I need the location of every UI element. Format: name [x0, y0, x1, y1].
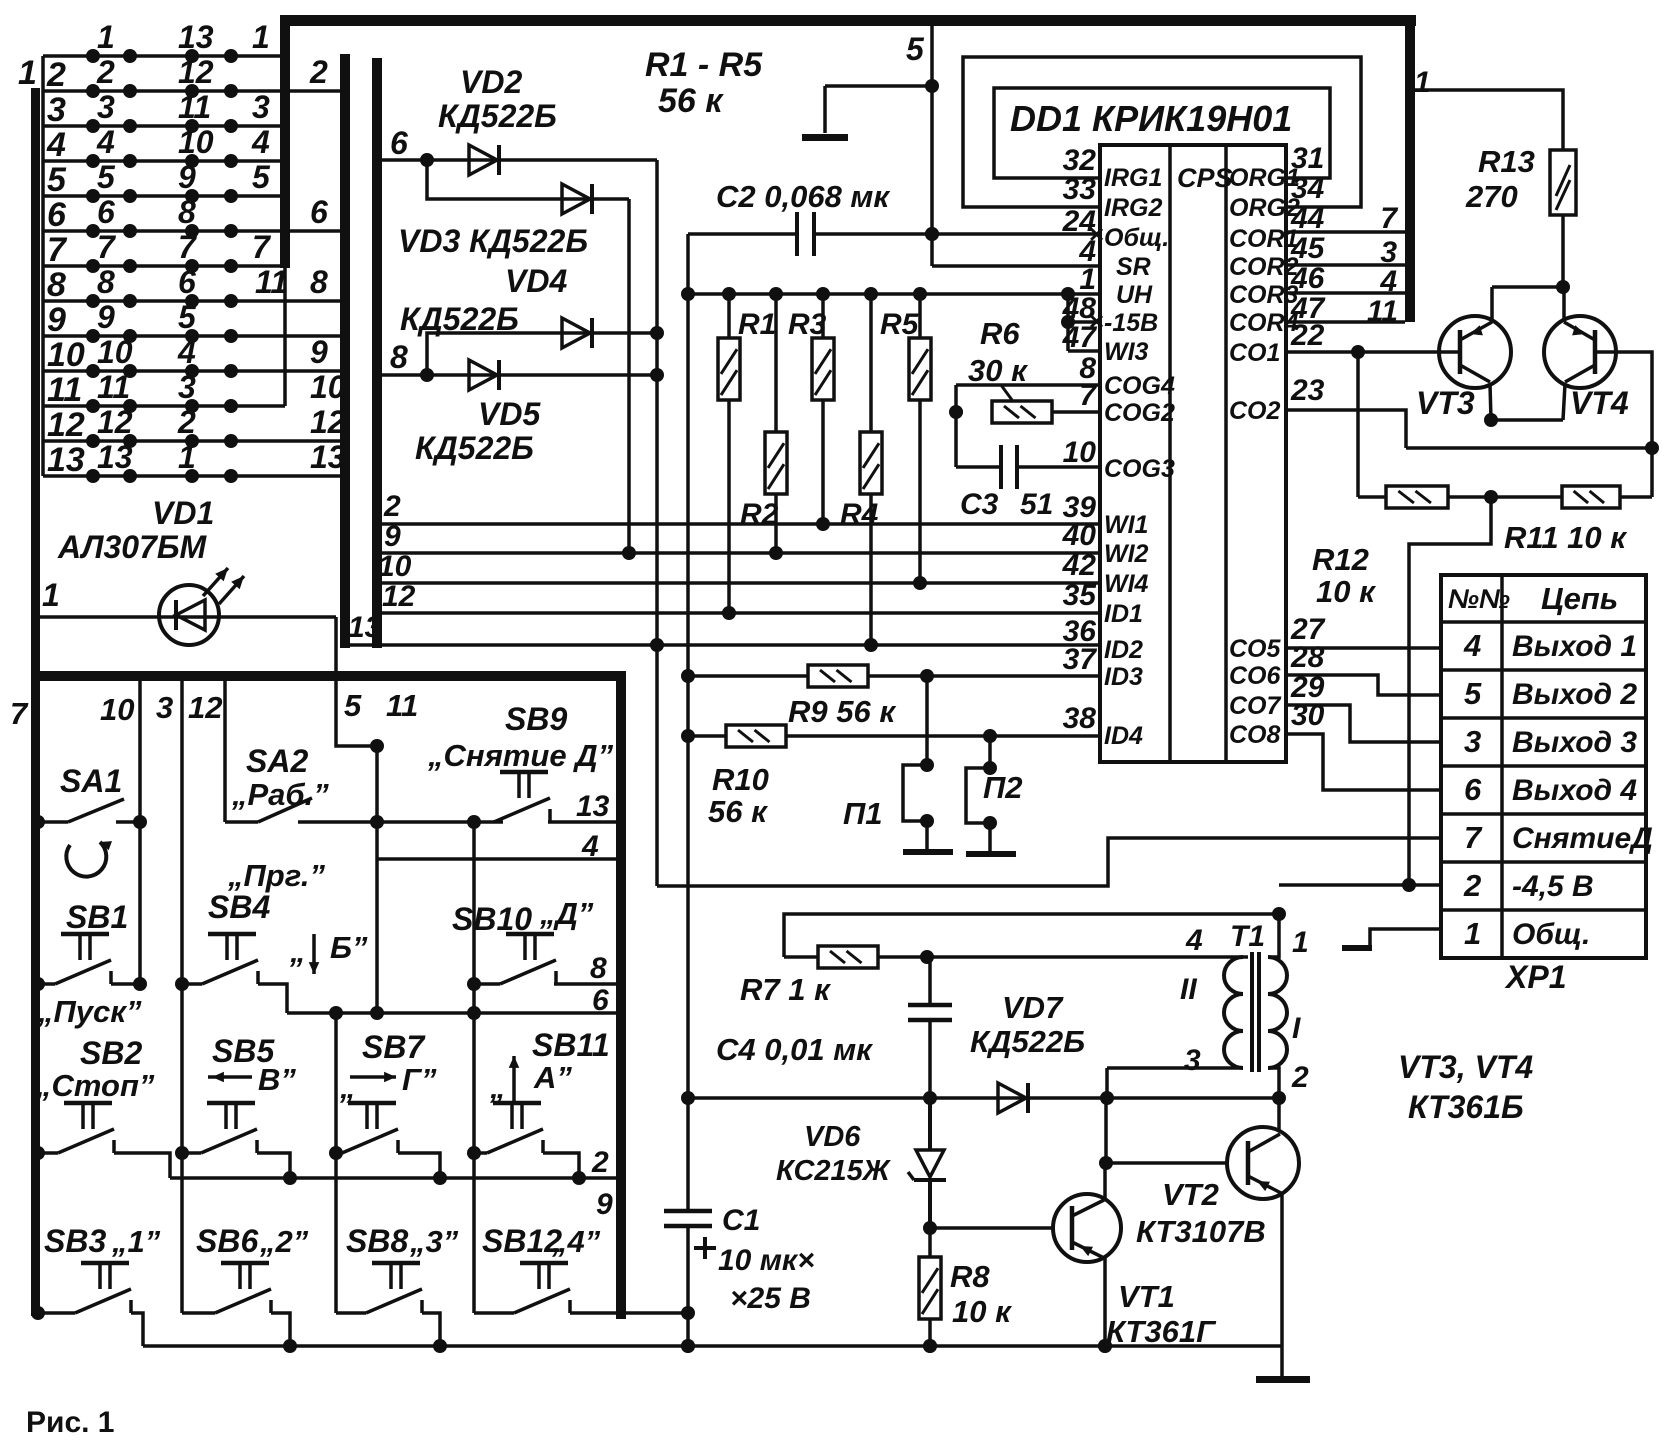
svg-text:ID3: ID3 [1104, 663, 1143, 691]
svg-text:WI1: WI1 [1104, 511, 1148, 539]
svg-text:С1: С1 [722, 1204, 760, 1237]
svg-text:9: 9 [310, 334, 328, 370]
svg-text:„Стоп”: „Стоп” [35, 1068, 155, 1103]
svg-text:COG4: COG4 [1104, 372, 1175, 400]
svg-text:„: „ [489, 1070, 506, 1105]
svg-text:С2 0,068 мк: С2 0,068 мк [716, 179, 890, 214]
svg-text:8: 8 [97, 264, 115, 300]
svg-text:А”: А” [533, 1060, 572, 1095]
svg-text:Общ.: Общ. [1512, 918, 1590, 951]
svg-text:3: 3 [1184, 1044, 1201, 1077]
svg-text:3: 3 [252, 89, 270, 125]
svg-text:DD1 КРИК19Н01: DD1 КРИК19Н01 [1010, 98, 1292, 139]
svg-text:4: 4 [1185, 924, 1203, 957]
svg-text:3: 3 [47, 91, 66, 129]
svg-text:4: 4 [46, 126, 66, 164]
svg-text:SR: SR [1116, 253, 1151, 281]
svg-text:СнятиеД: СнятиеД [1512, 822, 1653, 855]
svg-text:VT2: VT2 [1162, 1177, 1219, 1212]
svg-text:VD4: VD4 [505, 263, 567, 299]
svg-text:Выход 3: Выход 3 [1512, 726, 1637, 759]
svg-text:38: 38 [1063, 702, 1097, 735]
svg-text:13: 13 [178, 19, 214, 55]
svg-text:VD5: VD5 [478, 396, 541, 432]
svg-text:11: 11 [47, 371, 82, 409]
svg-text:WI4: WI4 [1104, 570, 1149, 598]
svg-text:4: 4 [581, 830, 599, 863]
svg-text:„Прг.”: „Прг.” [227, 858, 325, 893]
svg-text:7: 7 [1079, 379, 1097, 412]
svg-text:8: 8 [310, 264, 328, 300]
svg-text:5: 5 [344, 688, 362, 723]
svg-text:9: 9 [97, 299, 115, 335]
svg-text:SB4: SB4 [208, 889, 270, 925]
svg-text:37: 37 [1063, 643, 1098, 676]
svg-text:2: 2 [309, 54, 328, 90]
svg-text:„4”: „4” [551, 1224, 601, 1259]
svg-text:10: 10 [178, 124, 214, 160]
svg-text:2: 2 [96, 54, 115, 90]
svg-text:VD3 КД522Б: VD3 КД522Б [398, 223, 588, 259]
svg-text:1: 1 [18, 54, 37, 92]
svg-text:1: 1 [252, 19, 270, 55]
svg-text:R1 - R5: R1 - R5 [645, 46, 763, 84]
svg-text:6: 6 [310, 194, 328, 230]
svg-text:33: 33 [1063, 173, 1097, 206]
svg-text:ID1: ID1 [1104, 600, 1143, 628]
svg-text:5: 5 [1464, 676, 1482, 711]
svg-text:7: 7 [178, 229, 198, 265]
svg-text:23: 23 [1290, 374, 1325, 407]
svg-text:COG3: COG3 [1104, 455, 1175, 483]
svg-text:R11 10 к: R11 10 к [1504, 520, 1627, 555]
svg-text:10 к: 10 к [1316, 574, 1376, 609]
svg-text:П1: П1 [843, 796, 883, 831]
svg-text:4: 4 [1463, 628, 1481, 663]
svg-text:11: 11 [255, 264, 288, 300]
svg-text:КТ361Б: КТ361Б [1408, 1089, 1524, 1125]
svg-text:CO1: CO1 [1229, 339, 1280, 367]
svg-text:№№: №№ [1448, 584, 1510, 614]
svg-text:CO7: CO7 [1229, 692, 1282, 720]
svg-text:7: 7 [1380, 202, 1398, 235]
svg-text:SB10: SB10 [452, 901, 532, 937]
svg-text:8: 8 [590, 952, 607, 985]
svg-text:R1: R1 [738, 308, 776, 341]
svg-text:5: 5 [178, 299, 197, 335]
svg-text:„: „ [289, 934, 306, 969]
svg-text:R9 56 к: R9 56 к [788, 694, 896, 729]
svg-text:R3: R3 [788, 308, 827, 341]
svg-text:7: 7 [1464, 820, 1483, 855]
svg-text:6: 6 [47, 196, 67, 234]
svg-text:2: 2 [591, 1146, 609, 1179]
svg-text:VD7: VD7 [1002, 990, 1064, 1025]
svg-text:12: 12 [382, 580, 416, 613]
svg-text:1: 1 [42, 577, 60, 613]
svg-text:Цепь: Цепь [1541, 581, 1618, 616]
svg-text:R6: R6 [980, 316, 1020, 351]
svg-text:10: 10 [100, 692, 134, 727]
svg-text:51: 51 [1020, 488, 1053, 521]
svg-text:„2”: „2” [259, 1224, 309, 1259]
svg-text:COR2: COR2 [1229, 253, 1299, 281]
svg-text:11: 11 [178, 89, 211, 125]
svg-text:8: 8 [390, 339, 408, 375]
svg-text:13: 13 [310, 439, 346, 475]
svg-text:10: 10 [378, 550, 412, 583]
svg-text:КД522Б: КД522Б [970, 1024, 1085, 1059]
svg-text:2: 2 [1291, 1061, 1309, 1094]
svg-text:22: 22 [1290, 319, 1325, 352]
svg-text:SB11: SB11 [532, 1027, 610, 1063]
svg-text:ID4: ID4 [1104, 722, 1143, 750]
svg-text:7: 7 [47, 231, 68, 269]
svg-text:6: 6 [390, 125, 408, 161]
svg-text:4: 4 [177, 334, 196, 370]
svg-text:КД522Б: КД522Б [438, 98, 557, 134]
svg-text:30 к: 30 к [968, 353, 1028, 388]
svg-text:Общ.: Общ. [1104, 224, 1169, 252]
svg-text:COR1: COR1 [1229, 225, 1298, 253]
svg-text:12: 12 [188, 690, 222, 725]
svg-text:24: 24 [1062, 205, 1097, 238]
svg-text:R13: R13 [1478, 144, 1535, 179]
svg-text:4: 4 [251, 124, 270, 160]
svg-text:10: 10 [1063, 436, 1097, 469]
svg-text:-4,5 В: -4,5 В [1512, 870, 1594, 903]
svg-text:1: 1 [1414, 66, 1431, 99]
svg-text:4: 4 [96, 124, 115, 160]
svg-text:5: 5 [252, 159, 271, 195]
svg-text:SB7: SB7 [362, 1029, 426, 1065]
svg-text:CO2: CO2 [1229, 397, 1281, 425]
svg-text:АЛ307БМ: АЛ307БМ [57, 529, 208, 565]
svg-text:10 к: 10 к [952, 1294, 1012, 1329]
svg-text:8: 8 [178, 194, 196, 230]
svg-text:КТ361Г: КТ361Г [1106, 1314, 1217, 1349]
svg-text:9: 9 [47, 301, 66, 339]
svg-text:П2: П2 [983, 770, 1023, 805]
svg-text:47: 47 [1062, 321, 1098, 354]
svg-text:VD2: VD2 [460, 64, 522, 100]
svg-text:„Д”: „Д” [539, 896, 594, 931]
svg-text:КТ3107В: КТ3107В [1136, 1214, 1266, 1249]
svg-text:WI3: WI3 [1104, 338, 1149, 366]
svg-text:SB9: SB9 [505, 701, 567, 737]
svg-text:13: 13 [348, 611, 382, 644]
svg-text:1: 1 [1464, 916, 1481, 951]
svg-text:ORG1: ORG1 [1229, 164, 1300, 192]
svg-text:CO6: CO6 [1229, 662, 1282, 690]
svg-text:56 к: 56 к [658, 82, 724, 120]
svg-text:Выход 4: Выход 4 [1512, 774, 1637, 807]
svg-text:„3”: „3” [409, 1224, 459, 1259]
svg-text:2: 2 [177, 404, 196, 440]
svg-text:CO8: CO8 [1229, 721, 1281, 749]
svg-text:270: 270 [1465, 179, 1518, 214]
svg-text:SA1: SA1 [60, 763, 122, 799]
svg-text:R2: R2 [740, 498, 779, 531]
svg-text:SB8: SB8 [346, 1223, 408, 1259]
svg-text:1: 1 [97, 19, 115, 55]
svg-text:VD6: VD6 [804, 1121, 861, 1153]
svg-text:II: II [1180, 973, 1197, 1006]
svg-text:С4 0,01 мк: С4 0,01 мк [716, 1032, 873, 1067]
svg-text:„Раб.”: „Раб.” [231, 777, 329, 812]
svg-text:R12: R12 [1312, 542, 1369, 577]
svg-text:44: 44 [1290, 202, 1325, 235]
svg-text:VT3: VT3 [1416, 385, 1475, 421]
svg-text:Выход 1: Выход 1 [1512, 630, 1637, 663]
svg-text:„Снятие Д”: „Снятие Д” [427, 738, 614, 773]
svg-text:1: 1 [1292, 926, 1309, 959]
svg-text:VT4: VT4 [1570, 385, 1629, 421]
svg-text:2: 2 [46, 56, 66, 94]
svg-text:SB3: SB3 [44, 1223, 106, 1259]
svg-text:CPS: CPS [1177, 163, 1233, 193]
svg-text:12: 12 [47, 406, 85, 444]
svg-text:R8: R8 [950, 1259, 990, 1294]
svg-text:5: 5 [906, 31, 925, 67]
svg-text:6: 6 [178, 264, 196, 300]
svg-text:ID2: ID2 [1104, 636, 1143, 664]
svg-text:7: 7 [252, 229, 272, 265]
svg-text:SB12: SB12 [482, 1223, 562, 1259]
svg-text:10: 10 [47, 336, 85, 374]
svg-text:Рис. 1: Рис. 1 [26, 1406, 115, 1439]
svg-text:2: 2 [1463, 868, 1481, 903]
svg-text:2: 2 [383, 490, 401, 523]
svg-text:3: 3 [178, 369, 196, 405]
svg-text:3: 3 [97, 89, 115, 125]
svg-text:6: 6 [97, 194, 115, 230]
svg-text:„: „ [339, 1070, 356, 1105]
svg-text:IRG2: IRG2 [1104, 194, 1162, 222]
svg-text:34: 34 [1291, 172, 1325, 205]
svg-text:VT1: VT1 [1118, 1279, 1175, 1314]
svg-text:3: 3 [156, 690, 173, 725]
svg-text:R10: R10 [712, 762, 769, 797]
svg-text:8: 8 [47, 266, 66, 304]
svg-text:„Пуск”: „Пуск” [37, 994, 142, 1029]
svg-text:UH: UH [1116, 281, 1153, 309]
svg-text:11: 11 [97, 369, 130, 405]
svg-text:Б”: Б” [330, 930, 368, 965]
svg-text:Выход 2: Выход 2 [1512, 678, 1637, 711]
svg-text:R7 1 к: R7 1 к [740, 972, 831, 1007]
svg-text:I: I [1292, 1012, 1301, 1045]
svg-text:„1”: „1” [111, 1224, 161, 1259]
svg-text:11: 11 [1367, 295, 1398, 328]
svg-text:6: 6 [1464, 772, 1482, 807]
svg-text:13: 13 [47, 441, 85, 479]
svg-text:IRG1: IRG1 [1104, 164, 1162, 192]
svg-text:13: 13 [97, 439, 133, 475]
svg-text:10: 10 [310, 369, 346, 405]
svg-text:ХР1: ХР1 [1504, 959, 1566, 995]
svg-text:28: 28 [1290, 641, 1325, 674]
svg-text:R5: R5 [880, 308, 920, 341]
svg-text:9: 9 [596, 1188, 613, 1221]
svg-text:12: 12 [310, 404, 346, 440]
svg-text:45: 45 [1290, 232, 1326, 265]
svg-text:Т1: Т1 [1230, 920, 1265, 953]
svg-text:SB6: SB6 [196, 1223, 258, 1259]
svg-text:ORG2: ORG2 [1229, 194, 1300, 222]
svg-text:10: 10 [97, 334, 133, 370]
svg-text:R4: R4 [840, 498, 879, 531]
svg-text:13: 13 [576, 790, 610, 823]
svg-text:46: 46 [1290, 262, 1325, 295]
svg-text:×25 В: ×25 В [730, 1282, 811, 1315]
svg-text:6: 6 [592, 984, 609, 1017]
svg-text:WI2: WI2 [1104, 540, 1149, 568]
svg-text:КД522Б: КД522Б [415, 430, 534, 466]
svg-text:COG2: COG2 [1104, 399, 1175, 427]
svg-text:4: 4 [1379, 265, 1397, 298]
svg-text:SB2: SB2 [80, 1035, 142, 1071]
svg-text:С3: С3 [960, 488, 999, 521]
svg-text:11: 11 [386, 688, 418, 723]
svg-text:5: 5 [97, 159, 116, 195]
svg-text:VD1: VD1 [152, 495, 214, 531]
svg-text:10 мк×: 10 мк× [718, 1244, 815, 1277]
svg-text:12: 12 [97, 404, 133, 440]
svg-text:7: 7 [97, 229, 117, 265]
svg-text:3: 3 [1464, 724, 1481, 759]
svg-text:SA2: SA2 [246, 743, 308, 779]
svg-text:VT3, VT4: VT3, VT4 [1398, 1049, 1533, 1085]
svg-text:31: 31 [1291, 142, 1324, 175]
svg-text:9: 9 [384, 520, 401, 553]
svg-text:7: 7 [10, 696, 29, 731]
svg-text:COR3: COR3 [1229, 281, 1299, 309]
svg-text:5: 5 [47, 161, 67, 199]
svg-text:9: 9 [178, 159, 196, 195]
svg-text:56 к: 56 к [708, 794, 768, 829]
svg-text:CO5: CO5 [1229, 635, 1282, 663]
svg-text:12: 12 [178, 54, 214, 90]
svg-text:Г”: Г” [402, 1062, 437, 1097]
svg-text:-15В: -15В [1104, 309, 1158, 337]
svg-text:SВ1: SВ1 [66, 899, 128, 935]
svg-text:В”: В” [258, 1062, 296, 1097]
svg-text:1: 1 [178, 439, 196, 475]
svg-text:КС215Ж: КС215Ж [776, 1155, 892, 1187]
